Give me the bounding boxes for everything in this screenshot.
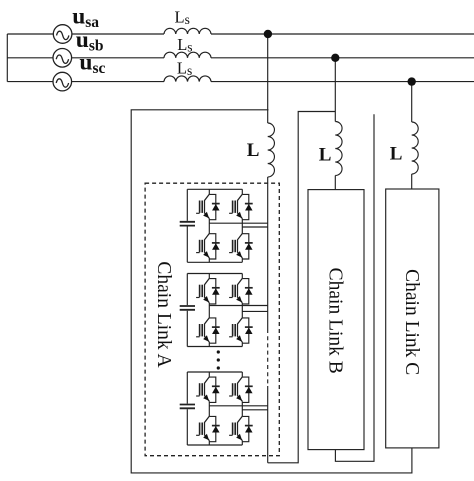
wire phase b line — [71, 57, 164, 59]
cell 1 left rail — [186, 189, 188, 262]
cell 2 left leg — [208, 274, 210, 347]
cell 1 right mid wire — [242, 226, 267, 228]
junction dot phase b — [331, 54, 339, 62]
wire chain A return bottom — [268, 112, 336, 463]
source u_sc — [53, 72, 72, 91]
box chain link A dashed — [145, 183, 279, 456]
cell 3 right leg — [241, 372, 243, 445]
H-bridge cell 1 — [180, 189, 268, 262]
junction dot phase a — [264, 30, 272, 38]
wire chain A series bus upper — [267, 177, 269, 329]
wire chain A series bus lower — [267, 386, 269, 463]
svg-text:L: L — [319, 145, 332, 166]
H-bridge cell 3 — [180, 372, 268, 445]
wire phase c line — [71, 81, 164, 83]
wire inductor B to box — [334, 176, 336, 190]
svg-text:Chain Link C: Chain Link C — [401, 269, 422, 375]
inductor Ls phase c — [164, 76, 211, 82]
cell 1 right leg — [241, 189, 243, 262]
cell 3 right mid wire — [242, 409, 267, 411]
transistor cell3 Q1 — [196, 377, 220, 403]
transistor cell2 Q1 — [196, 278, 220, 304]
wire phase a line — [72, 33, 164, 35]
cell 3 left rail — [186, 372, 188, 445]
transistor cell2 Q2 — [229, 278, 253, 304]
cell 1 left mid wire — [209, 222, 267, 224]
cell 2 bottom rail — [187, 346, 242, 348]
box chain link C — [386, 189, 439, 448]
wire chain B return — [335, 114, 374, 461]
capacitor C1 plates — [180, 222, 195, 226]
wire phase b drop — [334, 58, 336, 122]
svg-text:Chain Link A: Chain Link A — [153, 261, 174, 367]
svg-text:Chain Link B: Chain Link B — [325, 268, 346, 374]
cell 1 bottom rail — [187, 261, 242, 263]
wire phase a drop — [267, 34, 269, 123]
cell 2 right leg — [241, 274, 243, 347]
capacitor C2 plates — [180, 306, 195, 310]
transistor cell2 Q4 — [229, 318, 253, 344]
cell 1 top rail — [187, 188, 242, 190]
H-bridge cell 2 — [180, 274, 268, 347]
inductor Ls phase b — [164, 52, 211, 58]
inductor L chain C — [412, 122, 419, 174]
wire phase b left stub — [7, 57, 53, 59]
capacitor C3 plates — [180, 405, 195, 409]
inductor L chain B — [335, 122, 342, 176]
wire inductor C to box — [411, 174, 413, 189]
wire phase a left stub — [7, 33, 53, 35]
wire phase b line right — [211, 57, 474, 59]
inductor L chain A — [268, 123, 275, 177]
transistor cell3 Q2 — [229, 377, 253, 403]
inductor Ls phase a — [164, 28, 211, 34]
transistor cell2 Q3 — [196, 318, 220, 344]
box chain link B — [308, 190, 364, 450]
cell 3 top rail — [187, 371, 242, 373]
wire left neutral rail — [6, 34, 8, 82]
cell 1 left leg — [208, 189, 210, 262]
transistor cell1 Q2 — [229, 194, 253, 220]
wire chain A series bus dashed continuation — [267, 329, 269, 386]
svg-text:L: L — [247, 140, 260, 161]
cell 3 left mid wire — [209, 405, 267, 407]
cell 2 left rail — [186, 274, 188, 347]
svg-text:L: L — [390, 144, 403, 165]
cell 3 bottom rail — [187, 444, 242, 446]
source u_sb — [53, 49, 72, 68]
wire phase c drop — [411, 82, 413, 122]
transistor cell1 Q1 — [196, 194, 220, 220]
source u_sa — [53, 25, 72, 44]
wire chain C return — [131, 110, 412, 473]
cell 2 right mid wire — [242, 310, 267, 312]
junction dot phase c — [408, 77, 416, 85]
cell 2 left mid wire — [209, 305, 267, 307]
transistor cell1 Q4 — [229, 234, 253, 260]
transistor cell3 Q3 — [196, 416, 220, 442]
transistor cell1 Q3 — [196, 234, 220, 260]
cell 2 top rail — [187, 273, 242, 275]
wire phase c left stub — [7, 81, 53, 83]
wire phase c line right — [211, 81, 474, 83]
ellipsis dots between cell2 and cell3 — [217, 350, 220, 369]
transistor cell3 Q4 — [229, 416, 253, 442]
wire phase a line right — [211, 33, 474, 35]
cell 3 left leg — [208, 372, 210, 445]
